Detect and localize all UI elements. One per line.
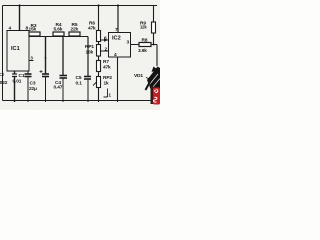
svg-text:5.6k: 5.6k [54, 27, 63, 33]
svg-text:IC1: IC1 [11, 46, 20, 52]
svg-text:RP1: RP1 [85, 44, 94, 50]
svg-text:3.9k: 3.9k [138, 48, 147, 54]
svg-text:12k: 12k [140, 25, 147, 30]
svg-text:47k: 47k [103, 65, 111, 71]
svg-text:0.022: 0.022 [0, 80, 8, 86]
svg-text:22μ: 22μ [29, 86, 37, 92]
svg-text:C5: C5 [76, 75, 82, 81]
svg-text:IC2: IC2 [112, 36, 121, 42]
svg-text:10k: 10k [86, 50, 94, 56]
svg-text:0.1: 0.1 [76, 81, 83, 87]
svg-text:22k: 22k [71, 27, 79, 33]
svg-text:R7: R7 [103, 59, 109, 65]
svg-text:0.01: 0.01 [13, 79, 22, 85]
svg-text:VD1: VD1 [134, 73, 143, 79]
svg-text:C1: C1 [19, 73, 25, 79]
svg-text:C3: C3 [30, 81, 36, 87]
svg-text:RP2: RP2 [103, 75, 112, 81]
svg-text:C2: C2 [0, 72, 4, 78]
svg-text:R8: R8 [142, 38, 148, 44]
svg-text:47k: 47k [88, 26, 96, 32]
svg-text:1k: 1k [104, 81, 110, 87]
svg-text:0.47: 0.47 [54, 85, 63, 91]
svg-text:15k: 15k [29, 27, 37, 33]
